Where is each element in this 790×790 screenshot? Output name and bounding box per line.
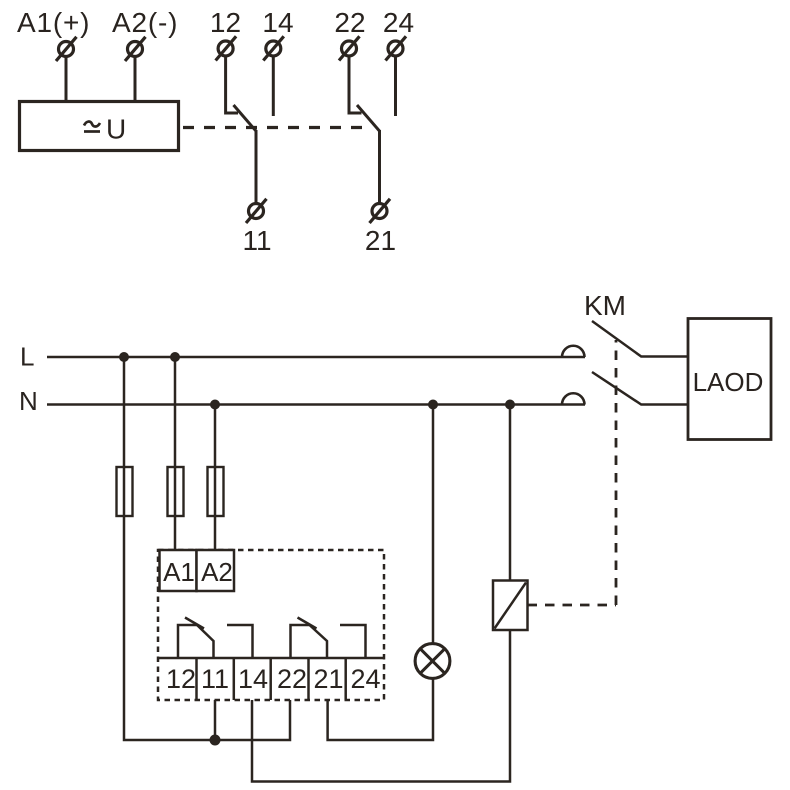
junction dot N3 [505,400,515,410]
value label ACDC U [84,122,100,132]
contact arm switch 1 [234,105,257,132]
terminal strip baseline [158,657,384,660]
wire arm to terminal 11 [255,130,258,204]
relay contact 1 tick [185,618,204,629]
svg-text:11: 11 [201,664,229,694]
svg-text:11: 11 [242,225,271,256]
wire A1 to supply box [65,57,68,101]
svg-text:14: 14 [262,7,293,38]
svg-text:A2(-): A2(-) [112,7,178,38]
svg-text:24: 24 [383,7,414,38]
terminal A1 [56,37,77,61]
lamp wire from N [432,405,435,645]
junction dot bottom [210,735,221,746]
terminal 14 [263,36,284,60]
relay contact 1 fixed 14 [227,625,253,658]
contactor coil KM [493,581,528,631]
dashed actuation link coil to KM contacts [528,340,617,605]
terminal 24 [386,36,407,60]
relay contact 2 tick [298,618,317,629]
svg-text:A1: A1 [163,557,195,587]
svg-text:A1(+): A1(+) [17,7,90,38]
svg-text:KM: KM [584,290,626,321]
terminal 22 [339,36,360,60]
wire line L [47,356,585,359]
svg-text:22: 22 [277,664,307,694]
relay outline dashed box [158,550,384,700]
divider 12|11 [195,658,198,700]
terminal 11 [246,199,267,223]
wire line N [47,403,585,406]
wire 14 to coil bottom [252,630,510,782]
junction dot L2 [170,352,180,362]
wire terminal 22 down [349,56,362,113]
dashed actuation link top [183,126,368,129]
fuse F2 [168,467,184,516]
relay contact 1 arm to 11 [197,625,214,658]
lamp HL [415,644,450,679]
wire N fuse3 branch [214,405,217,551]
relay contact 2 arm to 21 [310,625,328,658]
load box [688,319,771,440]
relay contact 2 fixed 22 [291,625,310,658]
divider 22|21 [307,658,310,700]
terminal A2 [125,37,146,61]
wire A2 to supply box [134,57,137,101]
svg-text:A2: A2 [201,557,233,587]
svg-text:21: 21 [313,664,343,694]
wire terminal 12 down [226,56,238,113]
coil terminal box A2 [197,550,235,591]
wire L fuse1 branch to bottom rail [124,357,290,740]
svg-text:U: U [106,114,126,145]
wire terminal 24 stub [394,56,397,116]
svg-text:14: 14 [238,664,268,694]
relay contact 2 fixed 24 [340,625,366,658]
terminal 12 [216,36,237,60]
svg-text:L: L [20,342,34,372]
svg-text:12: 12 [210,7,241,38]
contactor coil wire from N [509,405,512,581]
svg-text:12: 12 [166,664,196,694]
junction dot N2 [428,400,438,410]
wire L fuse2 branch [174,357,177,550]
svg-text:24: 24 [350,664,380,694]
wire 21 to lamp [328,678,433,740]
divider 21|24 [344,658,347,700]
junction dot L1 [119,352,129,362]
divider 11|14 [233,658,236,700]
svg-text:22: 22 [334,7,365,38]
contact arm KM on N [592,372,688,405]
fuse F3 [208,467,224,516]
contact fixed hump N [562,393,585,404]
wire arm to terminal 21 [378,130,381,204]
svg-text:LAOD: LAOD [693,367,764,397]
contact arm switch 2 [357,105,380,132]
junction dot N1 [210,400,220,410]
contact arm KM on L [592,321,688,357]
supply box U [20,102,179,151]
fuse F1 [117,467,133,516]
svg-text:N: N [19,386,38,416]
coil terminal box A1 [160,550,197,591]
terminal 21 [370,199,391,223]
wire terminal 14 stub [272,56,275,116]
divider 14|22 [269,658,272,700]
relay contact 1 fixed 12 [178,625,197,658]
contact fixed hump L [562,346,585,357]
svg-text:21: 21 [365,225,396,256]
wire 11 down [214,700,217,740]
